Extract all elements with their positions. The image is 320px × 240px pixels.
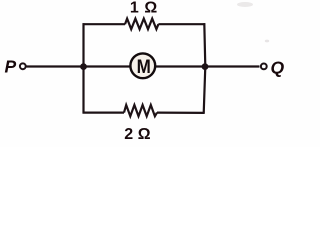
wire: top branch left segment — [83, 23, 126, 25]
svg-text:Q: Q — [271, 57, 285, 77]
resistor R2 2 ohm zigzag — [124, 105, 157, 116]
wire: bottom branch right segment — [157, 111, 205, 114]
wire: bottom branch left segment — [83, 111, 125, 113]
node: right junction dot — [202, 63, 209, 70]
wire: top branch right segment — [158, 23, 205, 25]
scan smudge top right (decorative) — [237, 2, 253, 7]
wire: middle horizontal from P terminal to Q terminal — [27, 65, 260, 67]
motor U1 circle body — [130, 53, 155, 78]
wire: left vertical bus — [82, 23, 84, 113]
svg-text:2Ω: 2Ω — [124, 126, 151, 143]
svg-text:M: M — [137, 56, 151, 78]
svg-text:1Ω: 1Ω — [130, 0, 158, 17]
resistor R1 1 ohm zigzag — [125, 19, 158, 30]
terminal Q open circle — [261, 64, 267, 70]
node: left junction dot — [80, 63, 87, 70]
svg-text:P: P — [5, 56, 17, 76]
wire: right vertical bus — [204, 23, 206, 113]
terminal P open circle — [20, 63, 26, 69]
